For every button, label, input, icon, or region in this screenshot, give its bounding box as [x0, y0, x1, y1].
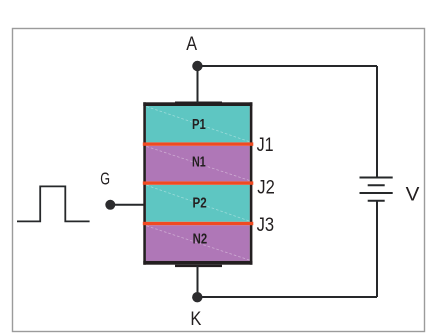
svg-text:N2: N2 [193, 230, 208, 247]
svg-text:G: G [100, 169, 110, 189]
svg-text:J1: J1 [257, 134, 274, 156]
svg-text:P2: P2 [193, 194, 207, 211]
svg-text:K: K [190, 309, 201, 330]
svg-text:J2: J2 [257, 176, 275, 198]
svg-text:V: V [406, 184, 420, 205]
svg-text:N1: N1 [192, 154, 206, 171]
svg-text:A: A [186, 34, 197, 55]
svg-text:P1: P1 [192, 116, 206, 133]
svg-text:J3: J3 [257, 214, 275, 236]
